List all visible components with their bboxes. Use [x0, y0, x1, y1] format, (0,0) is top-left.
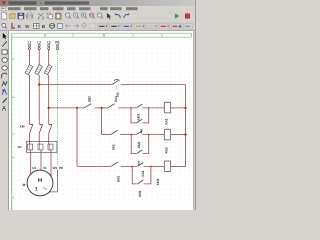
svg-text:L2: L2: [37, 41, 41, 45]
svg-text:KM1: KM1: [137, 114, 141, 121]
svg-text:B: B: [42, 24, 46, 30]
svg-text:FR: FR: [18, 145, 22, 149]
svg-text:KA1: KA1: [141, 170, 145, 176]
svg-text:L3: L3: [47, 41, 51, 45]
svg-text:V1: V1: [43, 166, 47, 170]
svg-text:KM1: KM1: [156, 178, 160, 185]
svg-text:KM1: KM1: [138, 190, 142, 197]
svg-text:U1: U1: [32, 166, 36, 170]
svg-text:KA1: KA1: [165, 118, 169, 124]
svg-text:PE: PE: [59, 166, 63, 170]
svg-text:KA2: KA2: [116, 176, 120, 182]
svg-text:KM: KM: [20, 125, 25, 129]
svg-text:W1: W1: [53, 166, 58, 170]
svg-text:KM1: KM1: [137, 141, 141, 148]
svg-text:M: M: [23, 183, 26, 187]
svg-text:KA1: KA1: [114, 96, 118, 102]
svg-text:SB2: SB2: [87, 96, 91, 102]
svg-text:FR: FR: [116, 92, 120, 97]
svg-text:W: W: [25, 24, 29, 29]
svg-text:K: K: [18, 24, 22, 30]
svg-text:KA1: KA1: [111, 144, 115, 150]
svg-text:L1: L1: [28, 41, 32, 45]
svg-text:A: A: [2, 107, 6, 113]
svg-text:KA2: KA2: [164, 147, 168, 153]
